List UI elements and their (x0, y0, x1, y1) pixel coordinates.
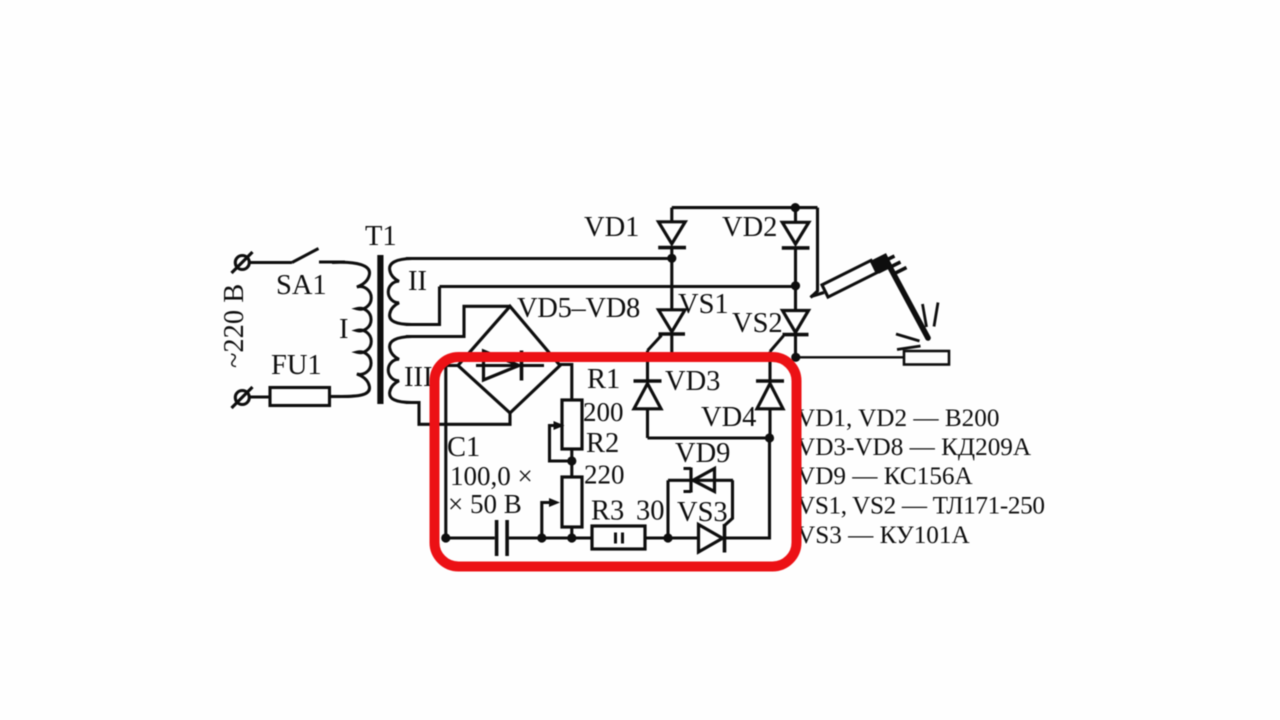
wire top input (249, 261, 292, 264)
svg-text:SA1: SA1 (276, 270, 327, 301)
capacitor C1 (495, 520, 509, 556)
resistor R2 (562, 477, 582, 527)
svg-text:VD3: VD3 (665, 366, 720, 397)
node R2 bottom on rail (567, 533, 576, 542)
wire top rail down to electrode holder (811, 208, 818, 298)
svg-text:VS2: VS2 (732, 308, 783, 339)
wire bottom rail left segment (446, 536, 495, 539)
workpiece (904, 351, 949, 365)
svg-text:VD4: VD4 (701, 402, 756, 433)
thyristor VS3 (699, 480, 733, 552)
wire mid rail to VD2 cathode node (440, 285, 796, 288)
welding electrode (889, 265, 929, 339)
svg-text:200: 200 (583, 397, 624, 427)
terminal X1 top (~220V plug) (232, 252, 253, 273)
node VS2 cathode output (791, 353, 800, 362)
svg-text:30: 30 (636, 496, 665, 527)
bridge rectifier VD5-VD8 diamond (458, 306, 560, 413)
svg-text:VS3 — КУ101А: VS3 — КУ101А (797, 522, 970, 549)
node R1/R2 junction (567, 456, 576, 465)
wire bottom input to fuse (249, 395, 270, 398)
node top rail / VD2 (791, 203, 800, 212)
svg-text:VS1, VS2 — ТЛ171-250: VS1, VS2 — ТЛ171-250 (797, 493, 1045, 520)
resistor R3 (592, 526, 645, 549)
transformer T1 core (377, 255, 383, 404)
wire step from III bottom to bridge bottom corner (406, 403, 510, 425)
diode VD1 (658, 208, 686, 259)
svg-text:~220 В: ~220 В (219, 284, 250, 368)
svg-text:VD9 — КС156А: VD9 — КС156А (797, 463, 973, 490)
transformer T1 winding II (388, 259, 412, 325)
fuse FU1 (270, 388, 330, 406)
zener diode VD9 (668, 468, 733, 493)
wire C1 to R3 (509, 536, 592, 539)
node VD2 cathode (791, 281, 800, 290)
wire fuse to winding I (330, 395, 341, 398)
holder clamp teeth (884, 256, 895, 262)
svg-text:C1: C1 (447, 432, 480, 463)
svg-text:× 50 В: × 50 В (448, 489, 522, 519)
thyristor VS1 (648, 258, 686, 356)
svg-text:VD9: VD9 (675, 438, 730, 469)
wire VS3 to right corner (725, 438, 770, 538)
node VD1 cathode (667, 254, 676, 263)
svg-text:VD1: VD1 (584, 212, 639, 243)
wire bridge left corner to minus rail down (446, 366, 459, 539)
node bottom rail left (441, 533, 450, 542)
switch SA1 blade (292, 249, 319, 263)
svg-text:II: II (408, 266, 427, 297)
diode VD3 (634, 351, 662, 439)
svg-text:R1: R1 (587, 364, 620, 395)
svg-text:220: 220 (584, 460, 625, 490)
svg-text:T1: T1 (365, 221, 397, 252)
thyristor VS2 (770, 286, 809, 358)
node VD9 on rail (663, 533, 672, 542)
wire step from II bottom up to mid rail (406, 287, 440, 325)
svg-text:R2: R2 (586, 428, 619, 459)
node R2 wiper on rail (537, 533, 546, 542)
wire R1 bottom to R2 top (570, 449, 573, 477)
wire output rail to workpiece (796, 356, 904, 358)
svg-text:FU1: FU1 (271, 350, 322, 381)
wire step from III top to bridge top corner (406, 306, 510, 336)
R1 wiper arm (550, 421, 572, 461)
wire switch to transformer (319, 260, 345, 263)
svg-text:VD2: VD2 (722, 212, 777, 243)
arc sparks (896, 303, 938, 350)
node VD4 rail junction (765, 433, 774, 442)
svg-text:VS1: VS1 (678, 289, 729, 320)
diode VD2 (782, 208, 810, 286)
wire VD3/VD4 anode rail (648, 436, 770, 439)
transformer T1 winding I (primary) (332, 262, 371, 396)
wire VD9 anode down to rail (666, 480, 669, 538)
svg-text:VS3: VS3 (677, 497, 728, 528)
svg-text:100,0 ×: 100,0 × (450, 461, 533, 491)
diode VD4 (756, 352, 784, 439)
bridge internal diode (476, 351, 544, 381)
resistor R1 (562, 400, 582, 449)
transformer T1 winding III (388, 337, 412, 403)
svg-text:III: III (404, 362, 432, 393)
svg-text:VD1, VD2 — В200: VD1, VD2 — В200 (797, 405, 999, 432)
svg-text:R3: R3 (591, 496, 624, 527)
terminal X1 bottom (232, 387, 253, 408)
wire R3 to VS3 (645, 536, 699, 539)
red highlight box (435, 357, 797, 567)
wire top rail (672, 206, 818, 209)
svg-text:VD3-VD8 — КД209А: VD3-VD8 — КД209А (797, 434, 1031, 461)
electrode holder (811, 253, 907, 297)
svg-text:I: I (339, 314, 349, 345)
R2 wiper arm (542, 498, 560, 538)
svg-text:VD5–VD8: VD5–VD8 (517, 293, 640, 324)
component list text (797, 405, 1045, 549)
wire bridge right corner to R1 top (560, 365, 572, 401)
wire rail from II top to VD1 cathode node (406, 257, 672, 260)
wire R2 bottom to rail (570, 527, 573, 538)
